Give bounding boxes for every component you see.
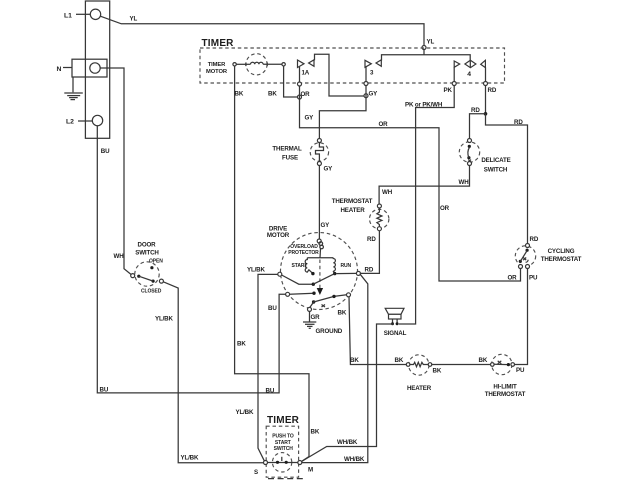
wire YL/BK motor to push-to-start S: [258, 274, 278, 460]
svg-text:WH: WH: [114, 253, 125, 260]
wire OR from 1A down and right: [300, 67, 521, 281]
svg-text:BK: BK: [235, 91, 244, 98]
svg-text:CYCLING: CYCLING: [548, 248, 575, 255]
wire RD thermostat heater to motor: [360, 231, 379, 274]
svg-text:PUSH TO: PUSH TO: [272, 434, 294, 440]
svg-text:YL/BK: YL/BK: [236, 409, 254, 416]
contact 3: [365, 60, 381, 77]
wire bus contact3 to contact4: [382, 55, 471, 61]
svg-text:GROUND: GROUND: [316, 328, 343, 335]
svg-text:DELICATE: DELICATE: [481, 157, 510, 164]
svg-text:BK: BK: [237, 340, 246, 347]
wire BK timer motor to M terminal: [235, 66, 309, 462]
timer motor: [206, 54, 285, 75]
terminal block TB1: [63, 1, 110, 138]
svg-text:SWITCH: SWITCH: [274, 446, 294, 452]
motor start switch: [278, 272, 335, 286]
wire WH neutral from N to door switch: [100, 68, 131, 274]
hi-limit thermostat: [491, 354, 515, 374]
svg-text:PK or PK/WH: PK or PK/WH: [405, 102, 443, 109]
ground (motor): [303, 302, 343, 335]
svg-text:MOTOR: MOTOR: [267, 232, 290, 239]
timer box (dashed): [200, 48, 505, 83]
svg-text:BK: BK: [433, 368, 442, 375]
wire YL/BK from door switch to push-to-start S: [163, 282, 263, 463]
run winding: [333, 258, 352, 276]
svg-text:CLOSED: CLOSED: [141, 288, 162, 294]
svg-text:GY: GY: [369, 91, 379, 98]
svg-text:YL/BK: YL/BK: [247, 267, 265, 274]
svg-text:RUN: RUN: [341, 263, 352, 269]
svg-text:RD: RD: [471, 107, 480, 114]
svg-text:PROTECTOR: PROTECTOR: [288, 250, 319, 256]
wire RD contact 4 to delicate switch and cycling thermostat: [485, 67, 487, 114]
contact 1A: [298, 60, 315, 77]
wire YL from L1 to timer: [101, 16, 424, 55]
svg-text:RD: RD: [367, 236, 376, 243]
thermal fuse: [310, 139, 328, 166]
svg-text:BK: BK: [395, 357, 404, 364]
svg-text:START: START: [292, 263, 308, 269]
door switch: [131, 262, 164, 286]
wire from 1A right to contact 3 junction: [315, 54, 365, 96]
svg-text:BU: BU: [266, 387, 275, 394]
wire BK timer motor to 1A: [284, 66, 298, 97]
svg-text:PU: PU: [516, 367, 525, 374]
push to start switch: [264, 453, 302, 472]
svg-text:TIMER: TIMER: [208, 62, 226, 68]
svg-text:WH/BK: WH/BK: [337, 439, 358, 446]
svg-text:TIMER: TIMER: [202, 38, 235, 49]
svg-text:THERMOSTAT: THERMOSTAT: [541, 256, 582, 263]
svg-text:PK: PK: [444, 87, 453, 94]
svg-text:GY: GY: [321, 222, 331, 229]
centrifugal switch actuator (dashed arrow): [317, 260, 323, 296]
svg-text:RD: RD: [488, 87, 497, 94]
svg-text:RD: RD: [514, 119, 523, 126]
svg-text:MOTOR: MOTOR: [206, 69, 228, 75]
svg-text:M: M: [308, 467, 313, 474]
svg-text:GY: GY: [324, 166, 334, 173]
svg-text:BU: BU: [268, 305, 277, 312]
wire WH/BK signal to M terminal: [302, 324, 395, 462]
svg-text:OR: OR: [440, 205, 450, 212]
cycling thermostat: [515, 244, 535, 269]
timer box bottom (push-to-start): [266, 415, 305, 479]
svg-text:L1: L1: [64, 13, 72, 20]
heater: [406, 355, 432, 375]
svg-text:YL/BK: YL/BK: [155, 316, 173, 323]
svg-text:N: N: [57, 66, 62, 73]
svg-text:SIGNAL: SIGNAL: [384, 330, 407, 337]
svg-text:1A: 1A: [302, 70, 310, 77]
svg-text:WH: WH: [382, 189, 393, 196]
svg-text:THERMOSTAT: THERMOSTAT: [485, 391, 526, 398]
wire BU from L2 to drive motor: [97, 126, 285, 393]
svg-text:DOOR: DOOR: [138, 242, 157, 249]
svg-text:THERMOSTAT: THERMOSTAT: [332, 198, 373, 205]
wire PU cycling thermostat to hi-limit: [515, 269, 528, 365]
svg-text:BK: BK: [479, 357, 488, 364]
svg-text:BK: BK: [338, 310, 347, 317]
wire GY thermal fuse to drive motor: [318, 166, 320, 240]
svg-text:WH/BK: WH/BK: [344, 456, 365, 463]
svg-text:RD: RD: [530, 236, 539, 243]
svg-text:BK: BK: [350, 357, 359, 364]
svg-text:HI-LIMIT: HI-LIMIT: [493, 384, 517, 391]
signal buzzer: [384, 308, 407, 337]
start winding: [292, 258, 334, 276]
svg-text:GY: GY: [305, 115, 315, 122]
wire WH delicate switch to thermostat heater: [379, 166, 469, 205]
svg-text:OR: OR: [379, 121, 389, 128]
svg-text:L2: L2: [66, 119, 74, 126]
wire BK motor to heater bus: [349, 297, 406, 365]
wire GY contact 3 to thermal fuse: [319, 67, 366, 139]
svg-text:HEATER: HEATER: [407, 385, 432, 392]
drive motor U1: [267, 226, 358, 310]
svg-text:YL: YL: [130, 16, 138, 23]
delicate switch: [459, 139, 479, 166]
svg-text:OR: OR: [508, 275, 518, 282]
svg-text:YL: YL: [427, 39, 435, 46]
svg-text:BU: BU: [100, 387, 109, 394]
svg-text:OR: OR: [301, 91, 311, 98]
svg-text:TIMER: TIMER: [267, 415, 300, 426]
svg-text:THERMAL: THERMAL: [272, 146, 302, 153]
svg-text:GR: GR: [311, 314, 321, 321]
svg-text:RD: RD: [365, 267, 374, 274]
svg-text:BK: BK: [311, 429, 320, 436]
svg-text:HEATER: HEATER: [340, 207, 365, 214]
svg-text:WH: WH: [459, 179, 470, 186]
wire PK contact 4 to signal: [399, 67, 454, 324]
svg-text:YL/BK: YL/BK: [181, 455, 199, 462]
thermostat heater: [370, 204, 389, 231]
svg-text:PU: PU: [529, 275, 538, 282]
svg-text:SWITCH: SWITCH: [484, 167, 508, 174]
svg-text:OPEN: OPEN: [149, 259, 163, 265]
svg-text:BK: BK: [268, 91, 277, 98]
svg-text:4: 4: [467, 71, 471, 78]
svg-text:SWITCH: SWITCH: [135, 250, 159, 257]
wire BK heater to hi-limit: [432, 364, 491, 366]
contact 4: [454, 60, 485, 78]
ground (terminal block): [64, 77, 83, 100]
wire RD motor to heater circuit: [302, 271, 368, 462]
motor heater switch: [286, 292, 351, 308]
svg-text:S: S: [254, 469, 258, 476]
svg-text:FUSE: FUSE: [282, 155, 298, 162]
svg-text:BU: BU: [101, 148, 110, 155]
overload protector: [288, 239, 323, 258]
